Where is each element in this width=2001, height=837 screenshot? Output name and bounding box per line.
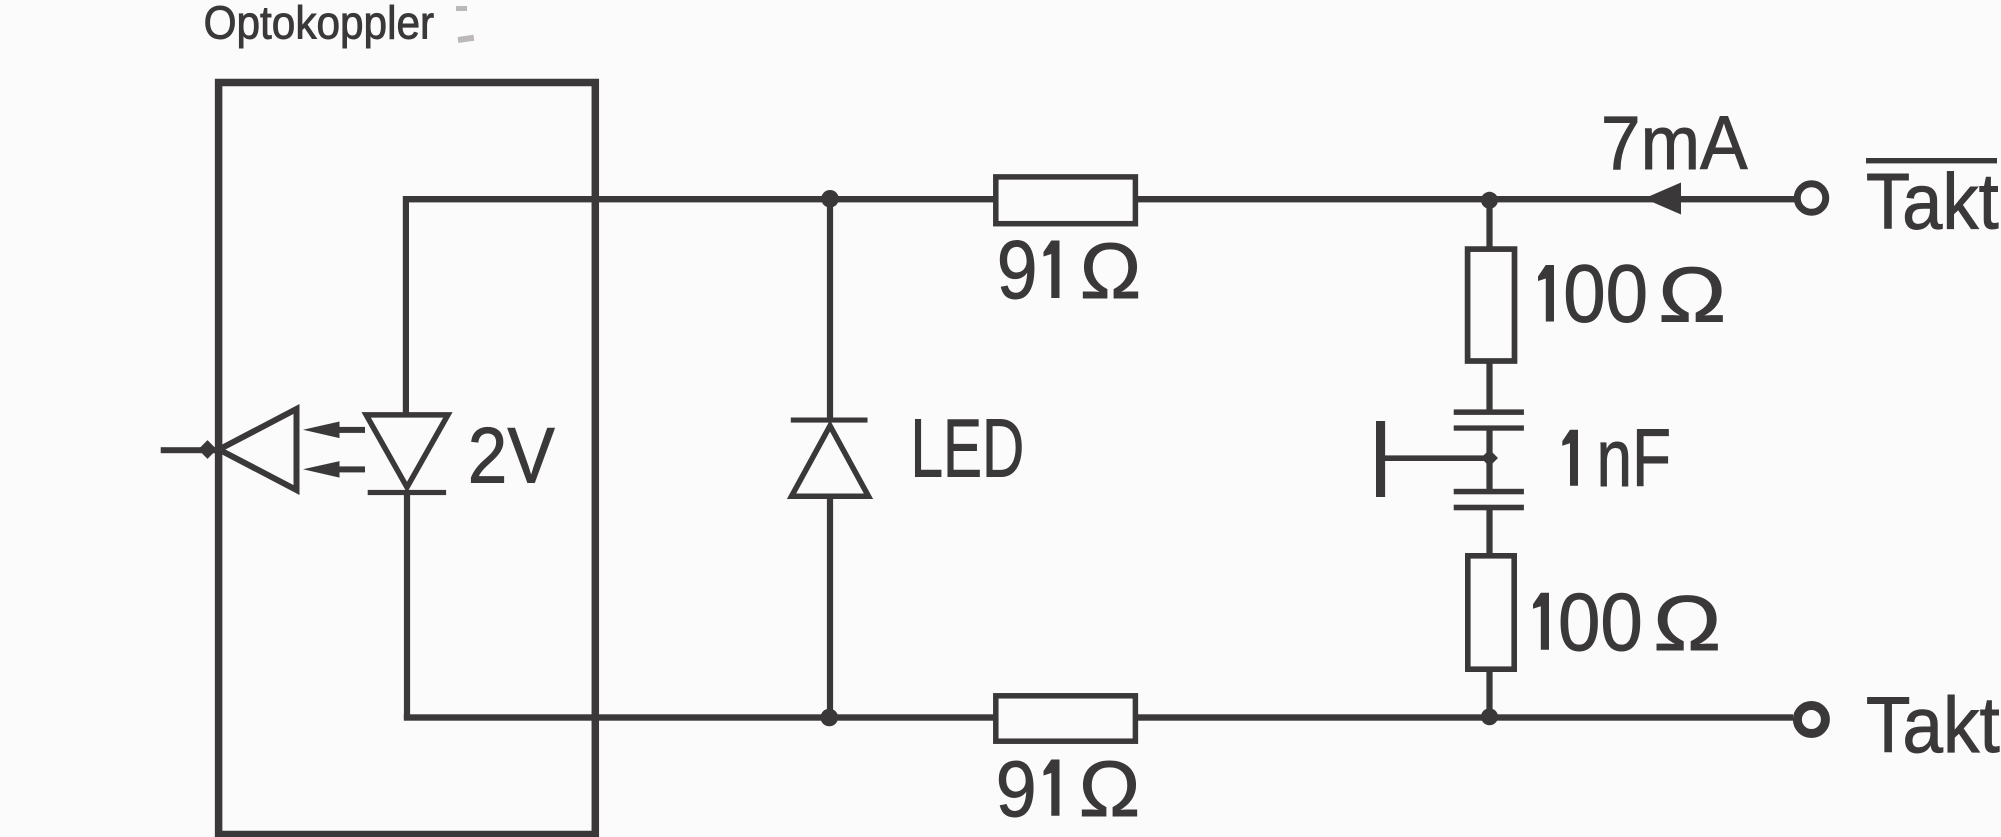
arrowhead current direction xyxy=(1644,183,1681,215)
wire middle branch upper vertical xyxy=(827,198,833,420)
diode D1 cathode bar xyxy=(368,490,446,495)
node capacitor center junction xyxy=(1481,450,1498,467)
diode D2 LED triangle xyxy=(792,426,869,497)
wire R3 bottom to C1 plate 1 xyxy=(1486,362,1492,411)
diode D1 2V LED triangle xyxy=(366,415,448,487)
node junction bottom right xyxy=(1481,708,1498,725)
wire C1 plate 4 to R4 top xyxy=(1486,509,1492,555)
light arrow lower xyxy=(303,461,365,478)
wire C1 plate 2 to plate 3 through tap node xyxy=(1486,429,1492,489)
svg-text:Ω: Ω xyxy=(1079,227,1142,315)
resistor R1 91 ohm top xyxy=(996,177,1136,224)
wire bottom net (Takt) horizontal xyxy=(404,714,1793,720)
svg-text:9: 9 xyxy=(996,745,1037,833)
svg-text:00: 00 xyxy=(1563,247,1648,339)
terminal Takt circle xyxy=(1797,706,1825,734)
svg-text:Ω: Ω xyxy=(1657,251,1727,339)
resistor R3 100 ohm top xyxy=(1468,249,1515,361)
wire junction to R3 top xyxy=(1486,199,1492,248)
diode D2 LED cathode bar xyxy=(791,418,868,423)
wire capacitor tap horizontal xyxy=(1381,455,1490,461)
svg-text:9: 9 xyxy=(997,223,1038,316)
wire middle branch lower vertical xyxy=(827,494,833,718)
svg-text:00: 00 xyxy=(1558,575,1643,667)
label 1nF xyxy=(1562,411,1671,504)
node input junction xyxy=(198,440,217,459)
optocoupler box U1 xyxy=(219,83,596,835)
label R4 100 ohm xyxy=(1533,575,1722,667)
label R2 91 ohm xyxy=(996,745,1141,833)
label R1 91 ohm xyxy=(997,223,1142,316)
svg-text:Ω: Ω xyxy=(1652,579,1722,667)
capacitor C1 plate 3 xyxy=(1454,489,1524,495)
svg-text:Takt: Takt xyxy=(1866,681,2000,769)
node junction top right xyxy=(1481,192,1498,209)
resistor R4 100 ohm bottom xyxy=(1468,556,1514,669)
svg-text:Ω: Ω xyxy=(1078,745,1141,833)
resistor R2 91 ohm bottom xyxy=(996,696,1136,741)
light arrow upper xyxy=(303,422,365,439)
node junction top middle xyxy=(821,190,839,208)
input lead wire xyxy=(161,447,219,453)
phototransistor receiver triangle xyxy=(219,409,297,490)
svg-text:7mA: 7mA xyxy=(1601,100,1749,186)
node junction bottom middle xyxy=(821,709,839,727)
wire 2V-LED cathode vertical xyxy=(404,493,410,718)
capacitor C1 plate 1 xyxy=(1454,409,1524,415)
svg-text:2V: 2V xyxy=(468,411,555,499)
label R3 100 ohm xyxy=(1538,247,1727,339)
wire R4 bottom to Takt net xyxy=(1486,670,1492,717)
wire top net (Takt-bar) horizontal xyxy=(403,196,1795,202)
wire 2V-LED anode vertical xyxy=(403,196,409,413)
capacitor tap bar xyxy=(1376,421,1385,497)
svg-text:nF: nF xyxy=(1597,411,1672,504)
capacitor C1 plate 2 xyxy=(1454,425,1524,430)
terminal Takt-bar circle xyxy=(1797,184,1826,213)
faint artifact 1 xyxy=(456,6,474,43)
capacitor C1 plate 4 xyxy=(1454,505,1524,511)
svg-text:Optokoppler: Optokoppler xyxy=(204,0,435,49)
svg-text:LED: LED xyxy=(911,403,1025,495)
overline for Takt-bar xyxy=(1866,158,1997,163)
svg-text:Takt: Takt xyxy=(1866,158,1999,247)
